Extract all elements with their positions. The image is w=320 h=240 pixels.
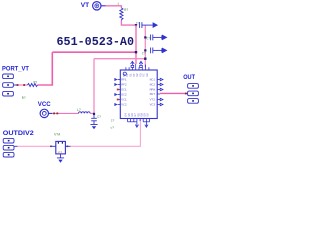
wire V2 vertical (cap bank) <box>144 26 146 68</box>
svg-text:C?: C? <box>146 37 150 41</box>
wire OUTDIV2 to filter <box>18 145 51 147</box>
junction node row3 <box>144 49 146 51</box>
wire resistor to riser <box>38 84 54 86</box>
svg-text:1: 1 <box>117 3 119 6</box>
IC top pins <box>126 64 149 70</box>
input arrows left pins <box>114 78 117 106</box>
connector VT circle <box>93 2 101 10</box>
svg-text:GC2: GC2 <box>121 94 127 97</box>
output arrows right pins <box>160 78 163 106</box>
power arrow top pin 6 <box>139 61 143 67</box>
wire PORT_VT to resistor <box>17 84 28 86</box>
pin stub OUTDIV2 <box>14 145 18 147</box>
connector OUTDIV2 boxes <box>3 138 14 157</box>
capacitor C? VCC bypass <box>91 115 97 125</box>
svg-text:GA: GA <box>147 113 150 117</box>
svg-text:VC2: VC2 <box>121 104 127 107</box>
svg-text:OUTDIV2: OUTDIV2 <box>3 131 35 137</box>
svg-text:VT2: VT2 <box>150 99 156 102</box>
svg-text:MPW: MPW <box>150 89 156 92</box>
inductor L? <box>79 112 91 114</box>
filter pins left/right <box>50 145 56 147</box>
node dots on wire <box>17 84 19 86</box>
no-connect red squares left <box>117 89 119 91</box>
svg-text:u?: u? <box>111 127 115 130</box>
wire OUT from IC <box>160 92 186 94</box>
pin stub PORT_VT <box>13 84 17 86</box>
connector OUT pin marks <box>192 85 194 102</box>
svg-text:NC1: NC1 <box>150 79 156 82</box>
wire OUTDIV2 to IC <box>71 119 141 147</box>
svg-text:U?A: U?A <box>54 133 60 137</box>
connector PORT_VT pin1 box <box>3 74 14 96</box>
resistor R? vertical <box>120 8 123 21</box>
svg-text:VC3: VC3 <box>150 104 156 107</box>
svg-text:GC1: GC1 <box>121 89 127 92</box>
svg-text:G3: G3 <box>146 73 149 77</box>
svg-text:C?: C? <box>142 52 146 56</box>
svg-text:PORT_VT: PORT_VT <box>2 66 29 72</box>
wire VCC to coil <box>52 112 78 114</box>
wire VT horizontal <box>106 5 122 7</box>
junction node VCC <box>93 113 95 115</box>
node dots on VCC wire <box>53 113 55 115</box>
connector PORT_VT pin marks <box>7 76 9 95</box>
svg-text:C?: C? <box>136 21 140 25</box>
IC U? body <box>120 70 157 119</box>
svg-text:NC2: NC2 <box>150 84 156 87</box>
wire V1 vertical (VT net down) <box>135 25 137 64</box>
wire A PORT_VT horizontal <box>52 51 136 53</box>
capacitor C? row3 <box>151 48 162 54</box>
power arrow row3 <box>162 48 167 52</box>
wire VCC riser <box>93 59 95 114</box>
power arrow row1 <box>153 23 158 27</box>
node dot at OUT pin <box>185 93 187 95</box>
IC inner bottom pin names (vertical) <box>125 113 150 117</box>
junction node at (136,52) <box>135 51 137 53</box>
wire coil to junction <box>90 112 95 114</box>
capacitor C? row2 <box>151 35 162 41</box>
connector OUTDIV2 pin marks <box>8 140 10 156</box>
wire below resistor <box>121 21 135 26</box>
IC inner top pin names (vertical) <box>123 73 149 77</box>
wire PORT_VT riser <box>51 52 53 85</box>
resistor R? horizontal <box>28 84 38 87</box>
svg-text:OUT: OUT <box>183 74 195 81</box>
svg-text:C?: C? <box>97 115 101 119</box>
svg-text:651-0523-A0: 651-0523-A0 <box>57 36 135 49</box>
node dots at filter pins <box>50 146 52 148</box>
svg-text:R?: R? <box>34 81 38 85</box>
ground below VCC cap <box>90 125 97 130</box>
ground bracket left <box>128 122 139 127</box>
pin 1 indicator circle <box>123 72 126 75</box>
svg-text:RF2: RF2 <box>121 84 127 87</box>
wire B VCC horizontal <box>94 58 145 60</box>
svg-text:VCC: VCC <box>38 102 52 108</box>
svg-text:C?: C? <box>111 120 115 123</box>
junction node wireB-V2 <box>144 58 146 60</box>
svg-text:R?: R? <box>22 96 26 100</box>
svg-text:R?: R? <box>124 9 128 13</box>
filter bottom pin <box>60 154 62 158</box>
IC left pins <box>118 80 121 105</box>
junction node row2 <box>144 36 146 38</box>
svg-text:VC1: VC1 <box>121 99 127 102</box>
svg-text:VT: VT <box>81 2 90 9</box>
IC bottom pins <box>128 119 150 122</box>
ground below filter <box>57 158 64 163</box>
power arrow row2 <box>162 35 167 39</box>
pin stub VCC <box>49 112 53 114</box>
filter inner marks <box>58 142 59 144</box>
power arrow top pin 3 <box>131 61 135 67</box>
junction node at (136,25) <box>135 24 137 26</box>
IC inner pin name texts <box>121 79 155 107</box>
connector OUT boxes <box>188 84 199 104</box>
svg-text:OUT: OUT <box>150 93 156 96</box>
filter U?A box <box>56 141 66 154</box>
ground bracket right <box>143 122 149 127</box>
svg-text:RF1: RF1 <box>121 79 127 82</box>
IC right pins <box>157 80 160 105</box>
capacitor C? row1 <box>140 22 153 28</box>
connector VCC circle <box>40 109 48 117</box>
wire VT corner down <box>120 5 122 8</box>
pin stub VT <box>101 5 105 7</box>
pin stub OUT connector <box>186 92 188 94</box>
svg-text:xtl: xtl <box>58 151 63 154</box>
